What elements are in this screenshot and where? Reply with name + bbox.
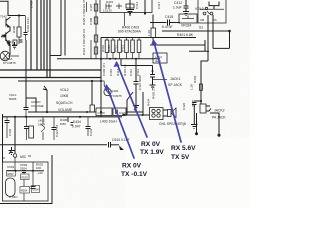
svg-text:R420 2.2: R420 2.2 [152,86,156,99]
svg-text:RX 5.6V: RX 5.6V [171,145,196,152]
capacitor C416 [135,59,137,81]
box label C504 [32,186,40,193]
svg-text:L403 10uH: L403 10uH [100,120,117,124]
wire x50-x61 jog [50,55,61,57]
capacitor C419 [150,75,155,78]
svg-text:C410: C410 [109,68,113,76]
wire horizontal y45 [150,44,205,46]
svg-text:C426: C426 [182,102,186,110]
capacitor C405 [20,40,23,42]
wire x33 down [32,162,34,171]
capacitor C421 [53,117,55,127]
svg-text:TX -0.1V: TX -0.1V [121,171,148,178]
terminal MIC [13,154,17,158]
wire vertical x65 [64,0,66,56]
box L404 [153,53,167,63]
node junction 101,112 [100,111,102,113]
resistor r-col2 [94,17,97,24]
svg-text:C412: C412 [174,1,182,5]
svg-text:0.047: 0.047 [72,125,81,129]
wire VOL1 feed x26 [25,40,27,107]
diode D401 [106,4,112,10]
svg-text:C414: C414 [135,1,139,9]
svg-text:VR324: VR324 [181,24,191,28]
wire left edge down [2,114,4,162]
resistor row r5 [132,38,134,41]
svg-text:C406 471: C406 471 [102,63,106,76]
svg-text:SP JACK: SP JACK [168,83,183,87]
arrow end y147 [119,146,124,151]
wire horizontal y79.5 stub [153,79,168,81]
wire bus vertical x41 [40,0,42,70]
component leads x96 [95,0,97,59]
wire horizontal y59 [57,58,160,60]
node junction 47,112 [46,111,48,113]
wire mic x15.5 [14,157,16,171]
wire pot track y9 [200,8,224,10]
svg-text:R410: R410 [101,44,105,52]
wire x24 down [23,180,25,187]
svg-text:C416 600P: C416 600P [138,75,142,90]
wire vertical x61 [60,0,62,56]
potentiometer VOL2 top [209,2,219,10]
node junction 15.5,170.8 [15,170,17,172]
node junction 142.5,115 [142,114,144,116]
resistor R427 [90,105,95,112]
svg-text:7342: 7342 [0,15,7,19]
svg-text:1S133: 1S133 [103,9,112,13]
ground mic row [9,147,15,155]
wire jog y98 [26,98,36,112]
capacitor C433 [87,117,89,126]
svg-text:MIC: MIC [20,155,27,159]
svg-text:KTC3875: KTC3875 [3,61,16,65]
resistor r-col4 [94,47,97,54]
capacitor C401 [25,16,27,33]
ground under C419 [150,85,156,89]
svg-text:PA: PA [213,18,217,22]
wire jog y61 [201,61,208,101]
svg-text:C413: C413 [136,68,140,76]
resistor R404 on x201 [199,84,202,90]
transistor Q405b [1,27,10,56]
svg-text:1.3K: 1.3K [147,30,151,36]
wire vertical x201 jack feed [200,101,202,104]
wire leg x196.5 [196,113,198,134]
wire vertical x152.5 mid [152,66,154,75]
svg-text:C421 6.8: C421 6.8 [55,124,59,137]
capacitor C503 [22,171,26,173]
node junction 110,59 [109,58,111,60]
svg-text:R412: R412 [114,44,118,52]
inductor L402 [42,117,45,140]
node junction 115.5,59 [115,58,117,60]
svg-text:JACK2: JACK2 [214,109,225,113]
box mic amp [3,162,49,201]
wire vertical x153 top [152,15,154,29]
ground top-left [7,40,12,46]
capacitor R437 elco [29,126,34,138]
box label C429 [96,108,112,116]
svg-text:R401 6.8K: R401 6.8K [177,33,194,37]
svg-text:D401: D401 [106,0,114,4]
node junction 92,81 [91,80,93,82]
wire vertical x205 [204,40,206,52]
svg-text:R503: R503 [22,175,29,179]
svg-text:+3V: +3V [38,171,43,175]
wire horizontal y144.8 [0,144,107,146]
svg-text:C501: C501 [7,165,15,169]
capacitor C510 [109,142,111,148]
svg-text:600 KTA1504A: 600 KTA1504A [118,30,141,34]
svg-text:R424 4.7K: R424 4.7K [82,41,86,55]
node junction 101,81 [100,80,102,82]
box around VOL2 [198,0,226,23]
wire switch leg x208 [207,15,209,61]
diode D402 [116,4,122,10]
svg-text:CN1 SPEAKER(8: CN1 SPEAKER(8 [159,122,186,126]
svg-text:C422: C422 [119,111,127,115]
potentiometer VOL2 wiper [46,90,48,112]
node junction 87,112 [86,111,88,113]
wire vertical x230 [229,31,231,48]
svg-text:1.2K: 1.2K [190,84,194,90]
capacitor C436 [6,117,8,120]
node junction 136,59 [135,58,137,60]
svg-text:C409: C409 [30,0,34,8]
svg-text:E502: E502 [8,172,15,176]
wire bus vertical x50 [49,0,51,78]
svg-text:R415 1K: R415 1K [123,64,127,76]
svg-text:C MIC: C MIC [9,195,18,199]
svg-text:10KB: 10KB [60,94,69,98]
blue pointer line C [107,86,135,159]
wire vertical x143 [142,92,144,115]
wire horizontal y116.8 [2,116,122,118]
wire bus vertical x44 [43,0,45,70]
box diode block top [100,0,152,13]
resistor r-col1 [94,4,97,11]
node junction 230,31 [228,30,231,33]
wire pad x145 [144,0,146,14]
svg-text:VOL2: VOL2 [60,88,69,92]
resistor row r6 [138,38,140,41]
wire horizontal y51.3 [189,50,209,52]
ground top-middle [126,0,134,16]
top edge ticks y155 row [2,156,31,158]
node junction 25,116.8 [25,116,27,118]
svg-text:Q404: Q404 [111,89,119,93]
capacitor C412 [184,0,189,11]
box mic amp outer [0,155,52,204]
wire MIC feed x15 [14,117,16,153]
svg-text:R434: R434 [147,98,151,106]
label small circle top of mic box [15,156,17,158]
svg-text:C433: C433 [89,128,93,136]
resistor row r4 [126,38,128,41]
capacitor E434 [68,117,73,125]
wire x91 lead [90,40,92,59]
blue pointer line A [117,63,148,138]
ground under C416 [133,106,139,112]
svg-text:S1: S1 [199,26,203,30]
wire inside y170.8 [7,170,44,172]
svg-text:TX 1.9V: TX 1.9V [140,149,164,156]
svg-text:100: 100 [36,166,41,170]
wire horizontal y22.5 with C415 [150,22,167,24]
transistor Q404 [101,81,107,91]
svg-text:C425 0.5: C425 0.5 [82,28,86,41]
box label R503 10K [21,174,30,180]
svg-text:C407: C407 [89,3,93,11]
capacitor C430 [24,108,29,110]
svg-text:JACK1: JACK1 [170,77,181,81]
svg-text:R422 470: R422 470 [82,0,86,11]
svg-text:CB: CB [200,18,204,22]
box label R504 [20,187,30,194]
svg-text:R413: R413 [121,44,125,52]
box label C422 [113,108,126,116]
svg-text:R404: R404 [193,75,197,83]
wire diagonal into CN1 [127,92,133,115]
capacitor C435 [26,117,28,126]
svg-text:1.0uF: 1.0uF [173,6,182,10]
wire vertical x101 main [100,38,102,118]
resistor R409 [13,40,17,45]
node junction at 19,15.5 [18,14,20,16]
svg-text:C436: C436 [8,128,12,136]
svg-text:VOLUME: VOLUME [58,108,73,112]
wire switch leg x213 [212,15,214,48]
wire horizontal y37.5 [101,37,196,39]
wire bus vertical x47 [46,0,48,78]
wire vertical x92 [91,81,93,105]
capacitor C427 [192,101,201,124]
svg-text:8.8K: 8.8K [60,122,66,126]
svg-text:6.47uF: 6.47uF [162,25,173,29]
svg-text:C401 104J: C401 104J [26,17,30,32]
wire bus vertical x37 [36,0,38,70]
node junction 80,116.8 [79,116,81,118]
wire horizontal y30 [162,30,230,32]
speaker SP [163,110,168,116]
wire leg x219 [210,113,219,135]
svg-text:R425 4.7K: R425 4.7K [82,11,86,25]
node junction 101,59 [100,58,102,60]
wire horizontal y65.5 [121,65,153,67]
svg-text:C415: C415 [165,15,173,19]
blue pointer line B [154,41,182,143]
svg-text:R408: R408 [12,25,16,33]
resistor row r3 [119,38,121,41]
svg-text:C504: C504 [33,187,40,191]
capacitor C504 [32,171,34,186]
ground under C427 [191,125,198,129]
wire horizontal y115 to CN1 [122,114,150,116]
wire vertical x121 [120,59,122,66]
component column R422 470 [86,2,88,12]
svg-text:SQUELCH: SQUELCH [56,101,73,105]
node junction 15,116.8 [14,116,16,118]
resistor R402 [151,28,156,38]
resistor row r2 [112,38,114,41]
capacitor c-col3 [94,35,97,42]
svg-text:RX 0V: RX 0V [122,163,142,170]
svg-text:RX 0V: RX 0V [141,141,161,148]
wire bus vertical x31 [30,0,32,70]
svg-text:C429: C429 [98,111,106,115]
microphone capsule [6,178,16,197]
svg-text:TX 5V: TX 5V [171,154,190,161]
svg-text:C411: C411 [129,69,133,76]
node junction 33,170.8 [32,170,34,172]
svg-text:C417: C417 [157,1,161,9]
jack JACK2 symbol [200,104,206,113]
svg-text:3304: 3304 [20,167,27,171]
ground under C412 [183,12,189,16]
wire horizontal y112 [28,111,96,113]
transistor Q405 [6,17,11,28]
svg-text:E434: E434 [73,120,81,124]
node junction 152.5,71 [152,70,154,72]
wire top-left L [0,1,25,15]
box VR324 [179,14,197,23]
switch S1 contacts [203,12,206,15]
node junction 124,115 [123,114,125,116]
resistor row r1 [106,38,108,41]
wire horizontal y112 right [126,111,143,113]
wire horizontal y81 [18,80,101,82]
box label E502 [7,171,16,177]
svg-text:C408: C408 [89,17,93,25]
wire box drop x124.5 [124,13,126,27]
svg-text:VOLUME: VOLUME [31,104,44,108]
svg-text:R504: R504 [21,188,28,192]
transistor Q406A [0,51,10,61]
wire horizontal y70 [0,69,101,71]
capacitor C415 [168,20,170,26]
svg-text:R411: R411 [107,45,111,52]
wire horizontal y48.4 [213,47,230,49]
node junction 200.5,101 [200,100,202,102]
connector CN1 [150,108,164,120]
resistor R408 [18,16,20,28]
resistor glyph in box [126,4,134,8]
wire horizontal y77.5 [0,77,101,79]
ground left mid [12,42,17,49]
svg-text:50KB: 50KB [9,97,16,101]
